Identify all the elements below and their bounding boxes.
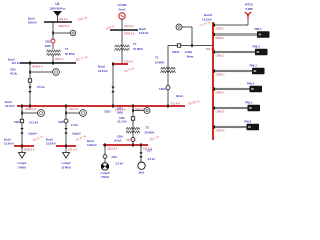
svg-text:4036: 4036: [44, 44, 51, 48]
svg-text:102.3 A: 102.3 A: [59, 17, 68, 21]
svg-text:Gen1: Gen1: [118, 8, 125, 12]
svg-text:PNL2: PNL2: [253, 45, 261, 49]
svg-text:Lump1: Lump1: [18, 161, 27, 165]
svg-text:U1: U1: [55, 2, 59, 6]
svg-text:2 MVA: 2 MVA: [101, 175, 109, 179]
svg-text:CBR1-6: CBR1-6: [216, 129, 226, 132]
svg-text:13.8 kV: 13.8 kV: [139, 31, 148, 35]
svg-text:13.8 kV: 13.8 kV: [4, 142, 14, 146]
svg-text:10 MVA: 10 MVA: [155, 61, 166, 65]
svg-text:3.5 kA: 3.5 kA: [116, 161, 124, 165]
svg-text:CBR1-2: CBR1-2: [216, 54, 226, 57]
svg-text:3.2 kA: 3.2 kA: [148, 157, 156, 161]
svg-text:230 kV: 230 kV: [28, 21, 37, 25]
svg-text:0.48 kV: 0.48 kV: [87, 143, 97, 147]
svg-text:Lump2: Lump2: [62, 161, 71, 165]
svg-text:7694.5 A: 7694.5 A: [124, 32, 135, 36]
svg-text:T3: T3: [155, 56, 159, 60]
svg-text:2051.9 A: 2051.9 A: [107, 147, 118, 151]
svg-text:50 MVA: 50 MVA: [65, 52, 76, 56]
svg-text:Cable5: Cable5: [72, 132, 81, 136]
svg-text:811.4 A: 811.4 A: [68, 148, 77, 152]
svg-text:51.5 kA: 51.5 kA: [118, 120, 127, 124]
svg-text:(NO): (NO): [117, 110, 123, 114]
svg-text:CB1: CB1: [45, 40, 51, 44]
svg-text:39 kA: 39 kA: [176, 94, 183, 98]
svg-text:PNL6: PNL6: [244, 120, 252, 124]
svg-text:Bus10: Bus10: [204, 13, 213, 17]
svg-text:2067 A: 2067 A: [55, 57, 64, 61]
svg-text:2 MW: 2 MW: [245, 7, 253, 11]
svg-text:CB13: CB13: [104, 110, 111, 114]
svg-text:10 MVA: 10 MVA: [133, 47, 144, 51]
svg-text:20 MVA: 20 MVA: [145, 131, 156, 135]
svg-text:115 kV: 115 kV: [12, 61, 21, 65]
svg-text:410.9 A: 410.9 A: [124, 24, 133, 28]
svg-text:2636.3 A: 2636.3 A: [26, 107, 37, 111]
svg-text:CBR1-4: CBR1-4: [216, 91, 226, 94]
svg-text:T1: T1: [65, 47, 69, 51]
svg-text:Cable4: Cable4: [28, 132, 37, 136]
svg-text:-0.936: -0.936: [184, 50, 192, 54]
svg-text:69.1 %: 69.1 %: [127, 138, 136, 142]
svg-text:4048.8 A: 4048.8 A: [32, 65, 43, 69]
svg-text:811.4 A: 811.4 A: [70, 107, 79, 111]
svg-text:CBR1-1: CBR1-1: [216, 37, 226, 40]
svg-text:CB5: CB5: [14, 120, 20, 124]
svg-text:40.5k: 40.5k: [10, 72, 17, 76]
svg-text:410.9 A: 410.9 A: [124, 60, 133, 64]
svg-text:WTG1: WTG1: [245, 3, 254, 7]
svg-text:PNL5: PNL5: [245, 101, 253, 105]
svg-text:715.4 A: 715.4 A: [171, 101, 180, 105]
svg-text:13.8 kV: 13.8 kV: [98, 69, 108, 73]
svg-text:1500 MVAsc: 1500 MVAsc: [49, 7, 66, 11]
svg-text:10 MVA: 10 MVA: [61, 165, 71, 169]
svg-text:51.5 kA: 51.5 kA: [29, 121, 38, 125]
svg-text:CB7: CB7: [147, 149, 153, 153]
svg-text:Mvar: Mvar: [187, 55, 194, 59]
svg-text:T2: T2: [146, 126, 150, 130]
svg-text:PNL3: PNL3: [250, 64, 258, 68]
svg-text:Mtr1: Mtr1: [139, 170, 145, 174]
svg-text:CBR1-5: CBR1-5: [216, 110, 226, 113]
svg-text:13.8 kV: 13.8 kV: [5, 104, 15, 108]
svg-text:CBR1-3: CBR1-3: [216, 73, 226, 76]
svg-text:8203.5 A: 8203.5 A: [59, 24, 70, 28]
svg-text:CB4: CB4: [112, 155, 118, 159]
svg-text:PNL4: PNL4: [247, 82, 255, 86]
svg-text:13.8 kV: 13.8 kV: [46, 142, 56, 146]
svg-text:12 MW: 12 MW: [118, 3, 127, 7]
svg-text:PNL1: PNL1: [255, 27, 263, 31]
svg-text:5 MVA: 5 MVA: [18, 165, 26, 169]
svg-text:2636.3 A: 2636.3 A: [24, 148, 35, 152]
svg-text:T4: T4: [133, 42, 137, 46]
svg-text:17 kA: 17 kA: [71, 123, 78, 127]
svg-text:CB10: CB10: [172, 50, 180, 54]
svg-text:CB8: CB8: [58, 120, 64, 124]
svg-text:Bus9: Bus9: [98, 65, 105, 69]
svg-text:CB6: CB6: [119, 116, 125, 120]
svg-text:0.5 kA: 0.5 kA: [37, 85, 45, 89]
svg-text:CB9: CB9: [117, 134, 123, 138]
svg-text:CB12: CB12: [159, 87, 167, 91]
svg-text:80 kA: 80 kA: [115, 138, 122, 142]
svg-text:CBR1-7: CBR1-7: [216, 27, 226, 30]
